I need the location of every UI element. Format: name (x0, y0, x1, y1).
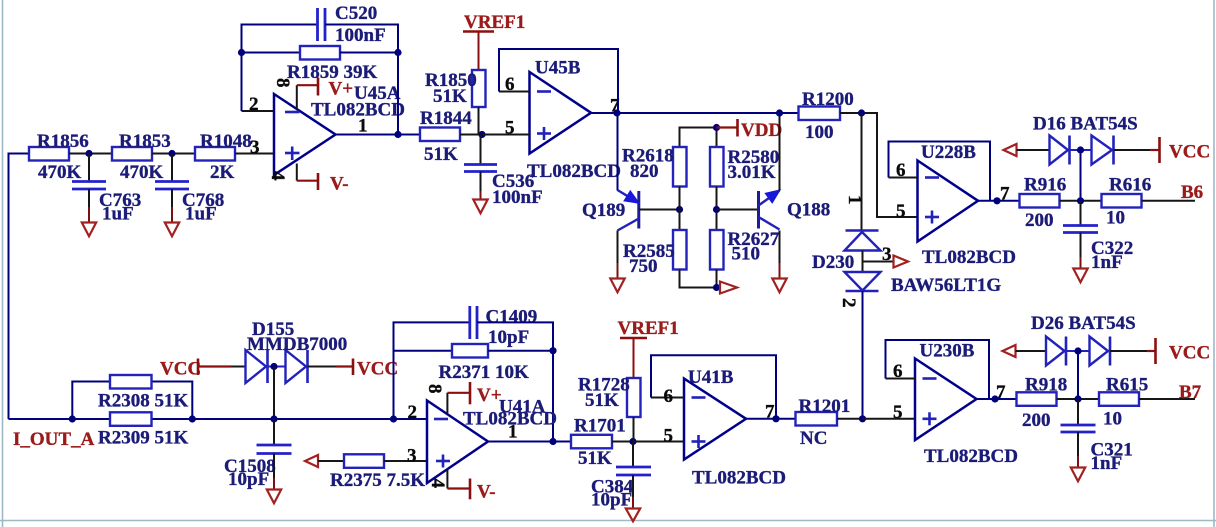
svg-text:R616: R616 (1109, 175, 1151, 196)
capacitor C384 (591, 442, 651, 511)
wire: D16 cathode to VCC (1114, 149, 1151, 151)
net label I_OUT_A (13, 429, 95, 450)
pin number 6 (U228B) (896, 160, 906, 181)
op-amp U41A TL082BCD (427, 397, 557, 484)
svg-text:5: 5 (893, 402, 903, 423)
wire: R1859 branch left (242, 52, 301, 54)
pin number 5 (U41B) (664, 426, 674, 447)
node J junction (1074, 395, 1081, 402)
wire: D155 right to VCC (308, 366, 337, 368)
wire: R2618 to node D to R2585 (679, 187, 681, 231)
pin number 2 (249, 94, 259, 115)
resistor R1048 (195, 131, 252, 183)
capacitor C321 (1061, 399, 1133, 474)
wire: R1856 to node A (69, 153, 112, 155)
svg-text:VCC: VCC (160, 359, 201, 380)
svg-text:470K: 470K (38, 162, 82, 183)
svg-text:10: 10 (1103, 409, 1122, 430)
wire: R1048 to U45A pin 3 (235, 153, 274, 155)
svg-text:U228B: U228B (921, 142, 976, 163)
wire: R1200 to node F and corner to U228B pin5 (840, 113, 918, 217)
wire: C1409 to feedback right vertical (477, 322, 553, 441)
pin number 4 (rotated, U41A) (427, 479, 448, 489)
svg-text:820: 820 (630, 161, 659, 182)
svg-text:U45B: U45B (535, 58, 581, 79)
svg-text:6: 6 (896, 160, 906, 181)
junction rail / C1508 (270, 415, 277, 422)
svg-text:510: 510 (732, 244, 761, 265)
power VCC (right of D155) (336, 359, 398, 380)
resistor R615 (1099, 375, 1148, 430)
capacitor C520 (318, 3, 386, 46)
wire: node C to U45B pin 5 (482, 134, 530, 136)
net arrow left near D16 (1004, 144, 1017, 156)
svg-text:470K: 470K (120, 162, 164, 183)
power V- of U45A (297, 164, 349, 195)
svg-text:51K: 51K (433, 86, 467, 107)
power VCC (left of D155) (160, 359, 231, 380)
power VREF1 bottom (618, 318, 679, 378)
capacitor C1409 (470, 306, 537, 348)
wire: U45B output rail to R1200 (591, 112, 799, 114)
wire: U45B pin 6 stub (499, 91, 530, 93)
wire: U45B feedback loop (499, 49, 618, 113)
svg-text:TL082BCD: TL082BCD (527, 161, 621, 182)
node C junction (478, 131, 485, 138)
wire: arrow to D16 anode (1017, 149, 1050, 151)
junction on feedback left (238, 49, 245, 56)
pin number 1 (rotated, D230) (844, 195, 865, 205)
junction at U45A output (394, 131, 401, 138)
junction U228B output (993, 197, 1000, 204)
net arrow left at R2375 (305, 455, 318, 467)
wire: R616 to net B6 (1142, 200, 1196, 202)
wire: U228B output to R916 (978, 200, 1020, 202)
junction on feedback right (394, 49, 401, 56)
junction U41B output (772, 415, 779, 422)
power VCC (bottom right) (1147, 338, 1210, 364)
capacitor C1508 (224, 419, 292, 490)
capacitor C322 (1063, 201, 1133, 273)
svg-text:V+: V+ (477, 385, 502, 406)
wire: VCC to D155 (231, 366, 246, 368)
power V+ of U41A (447, 382, 501, 413)
svg-text:C1409: C1409 (486, 307, 538, 328)
svg-text:5: 5 (896, 201, 906, 222)
net arrow left near D26 (1003, 345, 1016, 357)
pin number 2 (rotated, D230) (838, 298, 859, 308)
op-amp U228B TL082BCD (918, 142, 1016, 268)
svg-text:1uF: 1uF (185, 204, 217, 225)
junction bottom tie (713, 284, 720, 291)
svg-text:1nF: 1nF (1091, 453, 1123, 474)
transistor Q189 (582, 190, 639, 231)
resistor R916 (1020, 175, 1067, 232)
svg-text:100: 100 (805, 122, 834, 143)
pin number 3 (250, 137, 260, 158)
svg-text:2K: 2K (210, 162, 235, 183)
resistor R1856 (29, 131, 89, 183)
pin number 5 (U230B) (893, 402, 903, 423)
op-amp U41B TL082BCD (684, 367, 786, 489)
junction VDD tap (713, 124, 720, 131)
net label B6 (1181, 182, 1203, 203)
svg-text:R2309 51K: R2309 51K (98, 428, 188, 449)
svg-text:200: 200 (1022, 410, 1051, 431)
wire: D26 cathode to VCC (1110, 350, 1147, 352)
svg-text:V+: V+ (329, 79, 354, 100)
resistor R1850 (425, 70, 486, 107)
wire: pin 2 stub (242, 110, 275, 112)
wire: R2580 to node E to R2627 (716, 187, 718, 231)
resistor R1844 (420, 108, 472, 165)
power VCC (top right) (1150, 137, 1210, 163)
svg-text:R2371 10K: R2371 10K (439, 362, 529, 383)
svg-text:2: 2 (249, 94, 259, 115)
pin number 7 (610, 96, 620, 117)
resistor R2375 (330, 454, 425, 491)
junction D155 center (270, 363, 277, 370)
pin number 5 (505, 118, 515, 139)
wire: U45A output to R1844 (336, 134, 421, 136)
pin number 1 (U41A) (508, 422, 518, 443)
pin number 2 (U41A) (408, 402, 418, 423)
wire: R1850 to node C (478, 107, 480, 135)
power V+ of U45A (297, 78, 353, 110)
net arrow right at bottom tie (720, 282, 737, 294)
svg-text:R916: R916 (1024, 175, 1066, 196)
pin number 8 (rotated) (272, 78, 293, 88)
junction U230B output (991, 395, 998, 402)
svg-text:R1853: R1853 (119, 131, 171, 152)
op-amp U230B TL082BCD (915, 341, 1018, 468)
ground below Q189 (610, 279, 624, 293)
wire: Q188 collector up to rail (779, 113, 781, 191)
junction rail / feedback left (390, 415, 397, 422)
wire: node H to U41B pin 5 (633, 441, 684, 443)
svg-text:R1201: R1201 (799, 396, 851, 417)
wire: Q189 base to node D (639, 209, 680, 211)
svg-text:TL082BCD: TL082BCD (922, 247, 1016, 268)
svg-text:B6: B6 (1181, 182, 1203, 203)
svg-text:51K: 51K (424, 144, 458, 165)
wire: bottom tie R2585/R2627 (680, 270, 717, 288)
svg-text:I_OUT_A: I_OUT_A (13, 429, 95, 450)
resistor R2618 (622, 146, 687, 187)
ground below C1508 (267, 454, 281, 504)
junction D26 center (1074, 347, 1081, 354)
wire: R1701 to node H (612, 441, 633, 443)
svg-text:4: 4 (267, 171, 288, 181)
pin number 3 (U41A) (407, 446, 417, 467)
svg-text:VDD: VDD (741, 120, 782, 141)
wire: D230 pin 2 down to R1201 node (862, 291, 864, 419)
resistor R1201 (796, 396, 851, 449)
svg-text:8: 8 (424, 384, 445, 394)
svg-text:BAW56LT1G: BAW56LT1G (891, 275, 1001, 296)
diode D230 BAW56LT1G (dual) (812, 231, 1001, 297)
svg-text:V-: V- (477, 482, 496, 503)
wire: node F down to D230 pin 1 (861, 113, 863, 230)
wire: U41A feedback left vertical (394, 322, 470, 419)
svg-text:3.01K: 3.01K (728, 162, 776, 183)
resistor R2580 (710, 147, 779, 187)
svg-text:3: 3 (250, 137, 260, 158)
ground below C536 (473, 172, 487, 214)
svg-text:10pF: 10pF (228, 469, 269, 490)
svg-text:200: 200 (1025, 210, 1054, 231)
svg-text:6: 6 (893, 361, 903, 382)
svg-text:D26 BAT54S: D26 BAT54S (1031, 313, 1136, 334)
svg-text:2: 2 (838, 298, 859, 308)
capacitor C536 (464, 135, 543, 209)
wire: Q189 collector down (617, 231, 619, 279)
junction U41A output (549, 438, 556, 445)
wire: R2371 branch right (488, 350, 553, 352)
wire: node I to U230B pin 5 (863, 418, 916, 420)
wire: U41A output to R1701 (488, 441, 571, 443)
wire: U230B pin 6 stub (886, 378, 916, 380)
node G junction (1077, 197, 1084, 204)
svg-text:51K: 51K (578, 448, 612, 469)
ground below C322 (1073, 233, 1087, 283)
wire: D26 center down to output node J (1077, 351, 1079, 399)
svg-text:D230: D230 (812, 252, 854, 273)
svg-text:6: 6 (664, 386, 674, 407)
svg-text:750: 750 (629, 256, 658, 277)
svg-text:R1701: R1701 (574, 416, 626, 437)
wire: U230B feedback loop (886, 340, 990, 399)
resistor R2308 (98, 375, 188, 412)
wire: D16 center down to output node G (1080, 150, 1082, 201)
svg-text:10pF: 10pF (591, 490, 632, 511)
svg-text:5: 5 (505, 118, 515, 139)
wire: R1201 to node I (837, 418, 863, 420)
wire: U230B output to R918 (977, 398, 1017, 400)
node B junction (168, 150, 175, 157)
pin number 1 (358, 116, 368, 137)
power V- of U41A (447, 470, 495, 503)
junction feedback right / R2371 (549, 347, 556, 354)
svg-text:3: 3 (882, 244, 892, 265)
svg-text:U41B: U41B (688, 367, 734, 388)
net arrow right at D230 pin 3 (894, 256, 909, 268)
op-amp U45A TL082BCD (274, 83, 405, 175)
svg-text:51K: 51K (585, 390, 619, 411)
wire: rail down to Q189 emitter (617, 113, 619, 191)
resistor R616 (1102, 175, 1152, 229)
resistor R1728 (578, 375, 641, 418)
resistor R2627 (710, 229, 780, 270)
node I junction (859, 415, 866, 422)
svg-text:1: 1 (358, 116, 368, 137)
pin number 6 (505, 74, 515, 95)
svg-text:R2308 51K: R2308 51K (98, 391, 188, 412)
resistor R1200 (799, 89, 854, 143)
pin number 3 (D230) (882, 244, 892, 265)
power VREF1 top (463, 12, 525, 70)
net label B7 (1179, 382, 1202, 403)
svg-text:V-: V- (330, 174, 349, 195)
svg-text:R1048: R1048 (200, 131, 252, 152)
svg-text:VCC: VCC (1169, 142, 1210, 163)
ground below C321 (1071, 432, 1085, 481)
svg-text:U230B: U230B (920, 341, 975, 362)
svg-text:R2375 7.5K: R2375 7.5K (330, 470, 425, 491)
power VDD (717, 119, 783, 141)
pin number 7 (U230B) (996, 382, 1006, 403)
junction rail / R2308 left (69, 415, 76, 422)
node H junction (629, 438, 636, 445)
pin number 5 (U228B) (896, 201, 906, 222)
svg-text:R918: R918 (1025, 375, 1067, 396)
wire: U228B feedback loop (889, 142, 991, 201)
ground below Q188 (772, 279, 786, 293)
ground below C768 (165, 189, 179, 236)
svg-text:MMDB7000: MMDB7000 (247, 334, 347, 355)
junction D16 center (1077, 146, 1084, 153)
wire: U45A feedback left vertical (242, 25, 318, 112)
svg-text:1uF: 1uF (102, 204, 134, 225)
wire: D230 pin 3 stub (863, 261, 894, 263)
wire: R918 to node J (1057, 398, 1100, 400)
diode D16 BAT54S (dual) (1033, 114, 1138, 165)
op-amp U45B TL082BCD (527, 58, 621, 183)
capacitor C763 (72, 154, 141, 225)
resistor R918 (1017, 375, 1068, 432)
svg-text:10: 10 (1106, 208, 1125, 229)
wire: VDD rail (680, 128, 717, 148)
node F junction (858, 109, 865, 116)
resistor R2371 (439, 344, 529, 383)
svg-text:C520: C520 (335, 3, 377, 24)
transistor Q188 (759, 190, 831, 229)
svg-text:R615: R615 (1106, 375, 1148, 396)
wire: R916 to node G (1060, 200, 1102, 202)
wire: R1853 to node B (152, 153, 195, 155)
svg-text:10pF: 10pF (488, 327, 529, 348)
svg-text:VCC: VCC (357, 359, 398, 380)
svg-text:100nF: 100nF (335, 25, 386, 46)
svg-text:B7: B7 (1179, 382, 1202, 403)
pin number 6 (U41B) (664, 386, 674, 407)
resistor R2585 (623, 230, 687, 277)
wire: node E to Q188 base (717, 209, 759, 211)
node E junction (713, 206, 720, 213)
svg-text:4: 4 (427, 479, 448, 489)
wire: R1844 to node C (460, 134, 482, 136)
resistor R1853 (112, 131, 171, 183)
svg-text:1: 1 (508, 422, 518, 443)
wire: U228B pin 6 stub (889, 177, 918, 179)
svg-text:D16 BAT54S: D16 BAT54S (1033, 114, 1138, 135)
junction at U45B output (613, 109, 620, 116)
ground below C763 (82, 189, 96, 236)
svg-text:R1200: R1200 (802, 89, 854, 110)
junction rail / R2309 right (189, 415, 196, 422)
junction Q188 rail tap (776, 109, 783, 116)
wire: R1859 branch right (340, 52, 398, 54)
ground below C384 (626, 475, 640, 521)
wire: U41B pin 6 stub (651, 397, 684, 399)
svg-text:5: 5 (664, 426, 674, 447)
node A junction (85, 150, 92, 157)
svg-text:TL082BCD: TL082BCD (692, 468, 786, 489)
resistor R1701 (571, 416, 626, 470)
wire: Q188 emitter down (779, 231, 781, 279)
svg-text:VREF1: VREF1 (464, 12, 525, 33)
pin number 6 (U230B) (893, 361, 903, 382)
svg-text:TL082BCD: TL082BCD (924, 446, 1018, 467)
pin number 7 (U228B) (1000, 184, 1010, 205)
svg-text:NC: NC (800, 428, 827, 449)
resistor R1859 (287, 46, 377, 83)
svg-text:VREF1: VREF1 (618, 318, 679, 339)
wire: I_OUT_A rail (9, 418, 428, 420)
svg-text:Q188: Q188 (787, 200, 830, 221)
svg-text:2: 2 (408, 402, 418, 423)
svg-text:R1856: R1856 (37, 131, 89, 152)
svg-text:6: 6 (505, 74, 515, 95)
wire: arrow to R2375 (318, 460, 344, 462)
svg-text:3: 3 (407, 446, 417, 467)
pin number 7 (U41B) (765, 402, 775, 423)
diode D26 BAT54S (dual) (1031, 313, 1136, 366)
wire: D155 center down to rail (273, 367, 275, 420)
wire: arrow to D26 anode (1016, 350, 1047, 352)
wire: left vertical bus from R1856 down to I_OUT_A rail (9, 154, 30, 420)
wire: R2375 to U41A pin 3 (384, 460, 427, 462)
wire: R2371 branch left (394, 350, 453, 352)
node D junction (676, 206, 683, 213)
wire: U41B feedback loop (651, 355, 776, 419)
svg-text:100nF: 100nF (492, 187, 543, 208)
svg-text:1nF: 1nF (1091, 252, 1123, 273)
pin number 8 (rotated, U41A) (424, 384, 445, 394)
diode D155 MMDB7000 (dual) (246, 319, 348, 383)
wire: U41B output to R1201 (746, 418, 796, 420)
svg-text:R1844: R1844 (420, 108, 472, 129)
wire: R615 to net B7 (1139, 398, 1195, 400)
svg-text:1: 1 (844, 195, 865, 205)
wire: R1728 to node H (633, 417, 635, 442)
svg-text:Q189: Q189 (582, 200, 625, 221)
wire: R2308 bypass loop (72, 382, 192, 420)
svg-text:VCC: VCC (1169, 343, 1210, 364)
wire: C520 to feedback right vertical (325, 25, 398, 135)
capacitor C768 (155, 154, 224, 225)
pin number 4 (rotated) (267, 171, 288, 181)
resistor R2309 (98, 412, 188, 448)
